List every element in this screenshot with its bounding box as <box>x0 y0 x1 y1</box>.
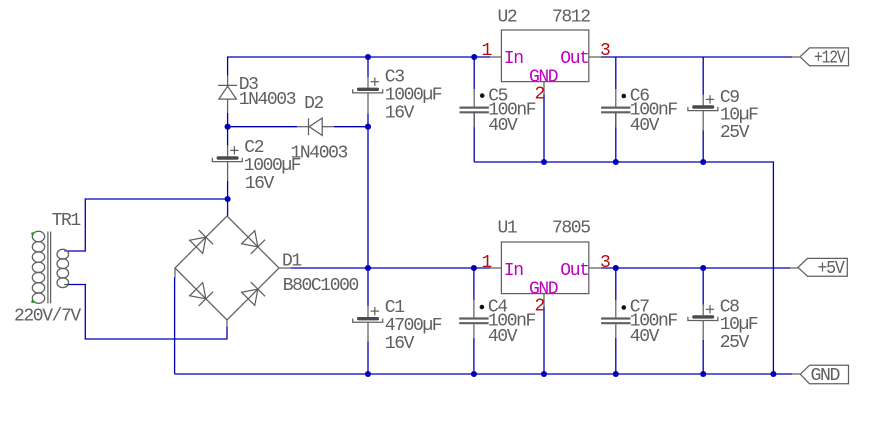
wire U2 out rail <box>601 56 792 58</box>
junction out rail at C8 <box>700 265 706 271</box>
junction mid rail C6 <box>613 159 619 165</box>
bridge diode top-left <box>189 230 213 254</box>
wire D1 output to U1 input <box>291 267 490 269</box>
wire mid GND rail of 12V section <box>474 162 773 374</box>
svg-text:2: 2 <box>535 296 545 316</box>
output tag +5V <box>790 258 847 279</box>
svg-text:TR1: TR1 <box>52 211 81 231</box>
capacitor C8 (electrolytic 10uF) <box>688 305 718 340</box>
output tag +12V <box>792 48 849 68</box>
wire bridge minus to ground rail <box>174 277 176 374</box>
pin stub Out U1 <box>589 267 601 269</box>
svg-text:16V: 16V <box>245 174 275 194</box>
svg-text:7805: 7805 <box>552 219 590 239</box>
junction D1 rail at C4 <box>471 265 477 271</box>
junction gnd rail at C1 <box>365 371 371 377</box>
junction top rail at C3 <box>365 54 371 60</box>
bridge rectifier D1 diamond <box>175 216 279 320</box>
pin stub GND U2 <box>543 82 545 95</box>
junction gnd rail at C8 <box>700 371 706 377</box>
bullet (C4) <box>480 305 485 310</box>
wire D2 right segment <box>334 126 368 128</box>
svg-text:+5V: +5V <box>818 259 845 279</box>
junction top rail at C5 <box>471 54 477 60</box>
wire bottom GND rail <box>175 373 792 375</box>
junction D1 rail at C3/C1 column <box>365 265 371 271</box>
svg-text:C2: C2 <box>244 138 263 158</box>
svg-text:25V: 25V <box>720 123 750 143</box>
svg-text:D1: D1 <box>282 252 301 272</box>
transformer TR1 <box>32 231 68 303</box>
wire C9 bottom <box>702 130 704 162</box>
wire C7 bottom <box>615 338 617 374</box>
bullet (C7) <box>622 305 627 310</box>
wire D2 left segment <box>228 126 298 128</box>
svg-text:220V/7V: 220V/7V <box>14 307 81 327</box>
wire C5 top <box>473 57 475 89</box>
pin stub In U2 <box>490 56 501 58</box>
regulator U1 box <box>501 242 588 294</box>
svg-text:7812: 7812 <box>552 8 590 28</box>
svg-text:3: 3 <box>600 41 610 61</box>
regulator U2 box <box>501 30 588 82</box>
wire C6 top <box>615 57 617 89</box>
svg-text:U1: U1 <box>498 219 517 239</box>
svg-text:+12V: +12V <box>814 48 846 68</box>
svg-text:In: In <box>504 261 523 281</box>
svg-text:B80C1000: B80C1000 <box>283 276 359 296</box>
wire transformer secondary top to bridge <box>66 199 228 251</box>
wire C8 top <box>702 268 704 305</box>
wire C7 top <box>615 268 617 300</box>
pin stub Out U2 <box>589 56 601 58</box>
wire C3 bottom down to D1 rail <box>367 114 369 307</box>
output tag GND <box>792 365 849 386</box>
junction gnd rail at C7 <box>613 371 619 377</box>
svg-text:40V: 40V <box>630 327 660 347</box>
capacitor C6 (100nF) <box>601 89 630 127</box>
capacitor C3 (electrolytic) <box>353 77 383 114</box>
wire C6 bottom <box>615 113 617 162</box>
wire C4 bottom <box>473 338 475 374</box>
svg-text:1: 1 <box>482 41 492 61</box>
wire C8 bottom <box>702 340 704 374</box>
svg-text:GND: GND <box>811 366 840 386</box>
bridge pin stub left <box>174 268 176 278</box>
wire C4 top <box>473 268 475 300</box>
svg-text:16V: 16V <box>385 103 415 123</box>
wire transformer secondary bottom to bridge <box>66 285 227 340</box>
wire C3 top <box>367 57 369 77</box>
junction mid rail C9 <box>700 159 706 165</box>
junction gnd rail at right vertical <box>770 371 776 377</box>
pin stub GND U1 <box>543 294 545 307</box>
junction C2/transformer/bridge node <box>225 196 231 202</box>
wire C9 top <box>702 57 704 95</box>
svg-text:3: 3 <box>600 253 610 273</box>
svg-text:40V: 40V <box>488 116 518 136</box>
svg-text:U2: U2 <box>498 8 517 28</box>
svg-text:C3: C3 <box>385 68 404 88</box>
wire top rail (U2 input net) <box>228 57 490 75</box>
svg-text:1N4003: 1N4003 <box>239 90 296 110</box>
svg-text:2: 2 <box>535 84 545 104</box>
svg-text:In: In <box>504 49 523 69</box>
capacitor C2 (electrolytic) <box>212 146 242 199</box>
diode D2 <box>297 118 334 135</box>
capacitor C9 (electrolytic 10uF) <box>688 95 718 130</box>
bridge diode bottom-left <box>189 282 213 306</box>
svg-text:C1: C1 <box>385 298 404 318</box>
pin stub In U1 <box>490 267 501 269</box>
svg-text:40V: 40V <box>630 116 660 136</box>
svg-text:25V: 25V <box>720 333 750 353</box>
bullet (C6) <box>622 94 627 99</box>
bridge pin stub bottom <box>226 320 228 327</box>
wire C5 bottom <box>473 113 475 162</box>
svg-text:Out: Out <box>560 49 588 69</box>
capacitor C4 (100nF) <box>459 300 488 338</box>
junction gnd rail at pin2 U1 <box>541 371 547 377</box>
transformer pin end dots <box>31 232 34 303</box>
junction out rail at C7 <box>613 265 619 271</box>
svg-text:16V: 16V <box>385 334 415 354</box>
capacitor C1 (electrolytic) <box>353 306 383 341</box>
wire U2 pin2 to mid rail <box>543 95 545 163</box>
wire U1 out rail <box>601 267 790 269</box>
bridge diode bottom-right <box>241 282 265 306</box>
bullet (C5) <box>480 93 485 98</box>
junction gnd rail at C4 <box>471 371 477 377</box>
wire U1 pin2 to gnd rail <box>543 307 545 375</box>
junction D3/C2/D2 node <box>225 124 231 130</box>
svg-text:Out: Out <box>560 261 588 281</box>
svg-text:D2: D2 <box>304 94 323 114</box>
capacitor C5 (100nF) <box>460 89 489 127</box>
diode D3 <box>218 75 237 112</box>
wire C1 bottom <box>367 342 369 374</box>
capacitor C7 (100nF) <box>601 300 630 338</box>
wire D3 to C2 segment <box>227 113 229 146</box>
bridge pin stub right <box>279 267 291 269</box>
svg-text:40V: 40V <box>488 327 518 347</box>
junction mid rail pin2 U2 <box>541 159 547 165</box>
junction D2/C3 node <box>365 124 371 130</box>
bridge diode top-right <box>241 230 265 254</box>
svg-text:1: 1 <box>482 253 492 273</box>
